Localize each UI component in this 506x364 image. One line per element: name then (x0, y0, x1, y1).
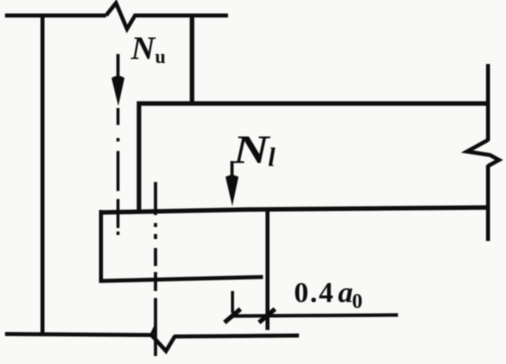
dimension tick right (259, 309, 275, 323)
beam bottom edge / pad top (99, 208, 489, 213)
bearing pad left edge (99, 210, 103, 282)
bearing pad right edge / dimension extension line (266, 208, 270, 331)
break symbol on beam right cut (467, 140, 499, 166)
load arrow Nl shaft (230, 161, 233, 181)
svg-text:0: 0 (352, 289, 363, 313)
flare at lower wall centerline junction (150, 325, 155, 334)
lower wall centerline (dash-dot) (154, 182, 157, 215)
upper wall right edge (190, 14, 195, 104)
beam top edge (137, 101, 489, 106)
wall bottom edge (right segment) (174, 336, 299, 337)
load arrow Nu head (112, 76, 125, 106)
wall top edge (left segment) (5, 14, 106, 18)
load arrow Nl head (226, 175, 239, 206)
wall top edge (right segment) (135, 14, 228, 18)
beam cut edge right (lower segment) (486, 165, 490, 241)
load arrow Nu shaft (116, 54, 119, 80)
dimension tick left (225, 309, 241, 323)
svg-text:N: N (130, 31, 156, 67)
svg-text:0.4: 0.4 (294, 277, 335, 309)
column centerline (dash-dot) under Nu (117, 108, 120, 125)
wall bottom edge (left segment) (5, 334, 152, 335)
svg-text:N: N (232, 127, 272, 172)
bearing pad bottom edge (99, 277, 263, 281)
dimension extension line at Nl axis (231, 291, 234, 313)
dimension line 0.4a0 (233, 315, 398, 316)
svg-text:u: u (155, 47, 166, 68)
svg-text:l: l (268, 143, 276, 172)
beam cut edge right (upper segment) (486, 64, 490, 141)
break symbol on wall bottom edge (151, 335, 175, 352)
svg-text:a: a (338, 276, 353, 309)
break symbol on wall top edge (106, 3, 137, 29)
beam left end edge (137, 102, 142, 211)
wall left edge (41, 14, 45, 335)
